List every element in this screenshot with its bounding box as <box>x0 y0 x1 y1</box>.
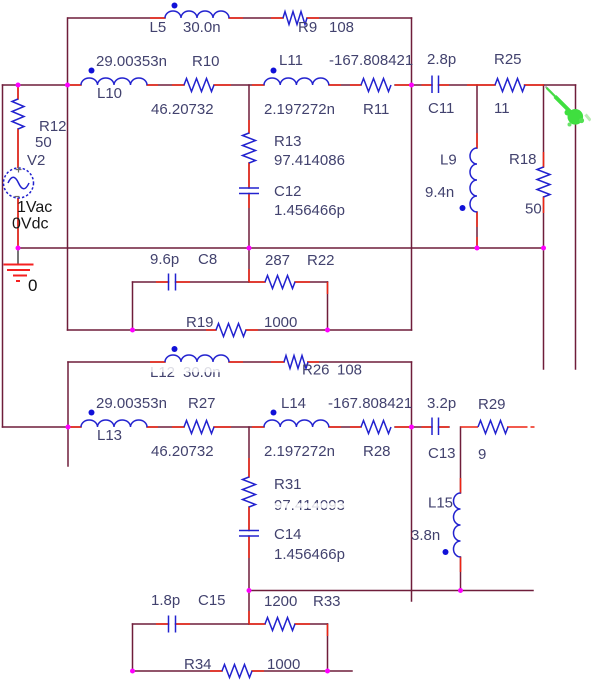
pin leads R26 <box>271 361 319 363</box>
wire L15 branch <box>460 427 462 591</box>
svg-text:1.8p: 1.8p <box>151 592 180 609</box>
pin leads R19 <box>206 329 258 331</box>
repaint artifact over R31 value <box>272 503 346 508</box>
svg-text:R34: R34 <box>184 656 212 673</box>
svg-text:R31: R31 <box>274 476 302 493</box>
svg-text:R33: R33 <box>313 593 341 610</box>
svg-text:97.414086: 97.414086 <box>274 152 345 169</box>
resistor R10 <box>184 79 214 92</box>
pin1 dot L9 <box>460 205 466 211</box>
pin leads C13 <box>422 426 450 428</box>
svg-text:9: 9 <box>478 446 486 463</box>
inductor L12 <box>165 355 229 362</box>
pin leads L12 <box>150 361 243 363</box>
capacitor C8 <box>169 274 176 291</box>
resistor R26 <box>284 356 308 369</box>
svg-text:R18: R18 <box>509 151 537 168</box>
resistor R9 <box>283 12 307 25</box>
pin leads R22 <box>249 282 328 294</box>
pin leads R29 <box>461 426 535 428</box>
svg-text:R26: R26 <box>302 362 330 379</box>
V2 minus mark <box>15 196 20 198</box>
wire top-path top circuit <box>68 17 412 19</box>
svg-text:2.197272n: 2.197272n <box>264 101 335 118</box>
pin1 dot L13 <box>89 410 95 416</box>
wire R34 row <box>133 670 353 672</box>
junction loop left R19 <box>130 328 135 333</box>
wire loop left vertical bottom circuit <box>132 624 134 671</box>
capacitor C12 <box>239 188 259 194</box>
pin1 dot L14 <box>271 410 277 416</box>
pin leads C12 <box>248 177 250 208</box>
junction ground L9 <box>475 246 480 251</box>
resistor R29 <box>478 421 508 434</box>
svg-text:L11: L11 <box>279 52 303 69</box>
pin leads R28 <box>350 426 410 428</box>
svg-text:L13: L13 <box>97 427 122 444</box>
capacitor C14 <box>239 531 259 537</box>
pin leads L11 <box>252 84 341 86</box>
V2 plus mark <box>16 167 22 173</box>
pin1 dot L10 <box>89 68 95 74</box>
svg-text:L5: L5 <box>150 19 167 36</box>
svg-text:R11: R11 <box>363 101 389 118</box>
svg-text:L9: L9 <box>440 152 457 169</box>
svg-text:46.20732: 46.20732 <box>151 101 214 118</box>
pin leads R9 <box>271 17 319 19</box>
svg-text:1Vac: 1Vac <box>17 199 52 216</box>
junction node Y2 row2 bottom <box>409 425 414 430</box>
pin leads R33 <box>249 624 328 636</box>
svg-text:C15: C15 <box>198 592 226 609</box>
wire C8 R22 row <box>133 281 328 283</box>
inductor L15 vertical <box>454 493 461 557</box>
pin leads C11 <box>422 84 450 86</box>
svg-text:R25: R25 <box>494 51 522 68</box>
junction node X2 row2 bottom <box>66 425 71 430</box>
svg-text:0Vdc: 0Vdc <box>12 216 48 233</box>
pin leads L10 <box>68 84 158 86</box>
pin leads L9 <box>476 133 478 247</box>
wire right vertical node Y2 bottom circuit <box>411 362 413 601</box>
pin1 dot L15 <box>443 549 449 555</box>
svg-text:9.6p: 9.6p <box>150 251 179 268</box>
svg-text:1000: 1000 <box>267 656 300 673</box>
inductor L14 <box>264 420 329 427</box>
pin leads R27 <box>172 426 231 428</box>
pin leads L14 <box>252 426 341 428</box>
inductor L10 <box>81 78 147 85</box>
resistor R33 <box>265 618 295 631</box>
svg-text:-167.808421: -167.808421 <box>328 395 412 412</box>
wire middle branch R13 C12 <box>248 85 250 282</box>
pin1 dot L11 <box>271 68 277 74</box>
svg-text:1000: 1000 <box>264 314 297 331</box>
wire ground net bottom circuit <box>249 590 533 592</box>
pin leads R34 <box>210 670 264 672</box>
svg-text:1.456466p: 1.456466p <box>274 546 345 563</box>
capacitor C11 <box>432 76 439 94</box>
pin1 dot L12 <box>172 346 178 352</box>
wire R19 row <box>68 329 412 331</box>
inductor L13 <box>81 420 147 427</box>
pin leads R31 <box>248 458 250 520</box>
wire ground net top circuit <box>18 247 544 249</box>
svg-text:287: 287 <box>265 252 290 269</box>
junction loop right R19 <box>325 328 330 333</box>
probe shaft green <box>547 88 557 98</box>
pin leads R10 <box>172 84 231 86</box>
svg-text:46.20732: 46.20732 <box>151 443 214 460</box>
inductor L5 <box>165 11 229 18</box>
svg-text:R22: R22 <box>307 252 335 269</box>
resistor R12 <box>12 99 24 129</box>
svg-text:3.8n: 3.8n <box>411 527 440 544</box>
svg-text:2.197272n: 2.197272n <box>264 443 335 460</box>
svg-text:29.00353n: 29.00353n <box>96 395 167 412</box>
junction node Y row2 <box>409 83 414 88</box>
probe pale tick <box>586 115 591 121</box>
svg-text:L12: L12 <box>150 364 175 381</box>
wire R18 branch <box>543 85 545 248</box>
pin1 dot L5 <box>172 3 178 9</box>
wire C15 R33 row <box>133 623 328 625</box>
resistor R25 <box>495 79 525 92</box>
resistor R34 <box>222 665 252 678</box>
svg-text:2.8p: 2.8p <box>427 51 456 68</box>
svg-text:50: 50 <box>35 134 52 151</box>
junction node X row2 <box>65 83 70 88</box>
svg-text:R19: R19 <box>186 314 214 331</box>
svg-text:108: 108 <box>329 19 354 36</box>
wire loop right vertical bottom circuit <box>327 624 329 671</box>
svg-text:C12: C12 <box>274 183 302 200</box>
pin leads R12 <box>17 86 19 169</box>
svg-text:1200: 1200 <box>264 593 297 610</box>
wire left vertical node X2 bottom circuit dangling <box>67 362 69 466</box>
ground symbol 0 <box>17 249 19 264</box>
wire top-path bottom circuit <box>68 361 412 363</box>
resistor R31 <box>243 477 256 507</box>
svg-text:-167.808421: -167.808421 <box>329 52 413 69</box>
resistor R19 <box>216 324 246 337</box>
wire loop left vertical top circuit <box>132 282 134 330</box>
capacitor C15 <box>169 616 176 633</box>
pin leads R25 <box>467 84 544 86</box>
svg-text:V2: V2 <box>27 152 45 169</box>
svg-text:11: 11 <box>494 100 510 117</box>
svg-text:C13: C13 <box>428 445 456 462</box>
wire left rail source to bottom circuit <box>2 85 4 427</box>
resistor R11 <box>361 79 391 92</box>
capacitor C13 <box>432 418 439 436</box>
wire output stub R29 <box>412 426 450 428</box>
wire row2 top circuit <box>3 84 412 86</box>
svg-text:C14: C14 <box>274 526 302 543</box>
wire R18 dangling stub down <box>543 248 545 369</box>
pin leads L5 <box>150 17 243 19</box>
inductor L9 vertical <box>470 148 477 212</box>
resistor R18 <box>537 167 550 197</box>
pin lead ground tap of middle branch 2 <box>248 611 250 624</box>
svg-text:R29: R29 <box>478 396 506 413</box>
junction loop left R34 <box>130 669 135 674</box>
pin leads C14 <box>248 520 250 558</box>
svg-text:R10: R10 <box>192 53 220 70</box>
pin leads C8 <box>156 281 190 283</box>
svg-text:R28: R28 <box>363 443 391 460</box>
inductor L11 <box>264 78 329 85</box>
junction ground R18 <box>541 246 546 251</box>
svg-text:3.2p: 3.2p <box>427 395 456 412</box>
svg-text:29.00353n: 29.00353n <box>96 53 167 70</box>
svg-text:0: 0 <box>28 276 37 295</box>
resistor R13 <box>243 133 256 163</box>
repaint artifact over L12 value <box>146 367 230 372</box>
pin leads C15 <box>156 623 190 625</box>
pin leads L15 <box>460 478 462 572</box>
svg-text:30.0n: 30.0n <box>183 364 221 381</box>
svg-text:R27: R27 <box>188 395 216 412</box>
probe blob <box>568 109 584 125</box>
svg-text:9.4n: 9.4n <box>425 184 454 201</box>
wire left vertical node X top circuit <box>67 18 69 330</box>
svg-text:R12: R12 <box>39 118 67 135</box>
wire row2 bottom circuit <box>3 426 412 428</box>
wire right rail dangling <box>575 85 577 369</box>
svg-text:30.0n: 30.0n <box>183 19 221 36</box>
pin leads V2 <box>17 198 19 246</box>
wire L9 branch <box>476 85 478 248</box>
pin leads R13 <box>248 120 250 177</box>
svg-text:L10: L10 <box>97 85 122 102</box>
svg-text:R9: R9 <box>298 19 317 36</box>
wire output row right of node Y <box>412 84 576 86</box>
junction ground L15 <box>458 588 463 593</box>
resistor R28 <box>361 421 391 434</box>
svg-text:50: 50 <box>525 201 542 218</box>
wire right vertical node Y top circuit <box>411 18 413 330</box>
probe tip gray <box>546 87 553 94</box>
svg-text:R13: R13 <box>274 133 302 150</box>
resistor R27 <box>184 421 214 434</box>
pin lead ground tap of middle branch <box>248 269 250 282</box>
wire source branch V2 R12 <box>17 85 19 248</box>
svg-text:C8: C8 <box>198 251 217 268</box>
junction loop right R34 <box>325 669 330 674</box>
pin leads L13 <box>68 426 158 428</box>
svg-text:L15: L15 <box>428 495 453 512</box>
wire loop right vertical top circuit <box>327 282 329 330</box>
resistor R22 <box>265 276 295 289</box>
junction node source top <box>16 83 21 88</box>
junction ground at source <box>16 246 21 251</box>
pin leads R18 <box>543 152 545 213</box>
svg-text:108: 108 <box>337 362 362 379</box>
wire middle branch R31 C14 <box>248 427 250 624</box>
pin leads R11 <box>350 84 410 86</box>
svg-text:1.456466p: 1.456466p <box>274 202 345 219</box>
junction ground middle branch <box>247 246 252 251</box>
voltage source V2 <box>4 168 34 198</box>
svg-text:C11: C11 <box>428 100 454 117</box>
junction ground middle branch 2 <box>247 588 252 593</box>
svg-text:L14: L14 <box>281 395 306 412</box>
